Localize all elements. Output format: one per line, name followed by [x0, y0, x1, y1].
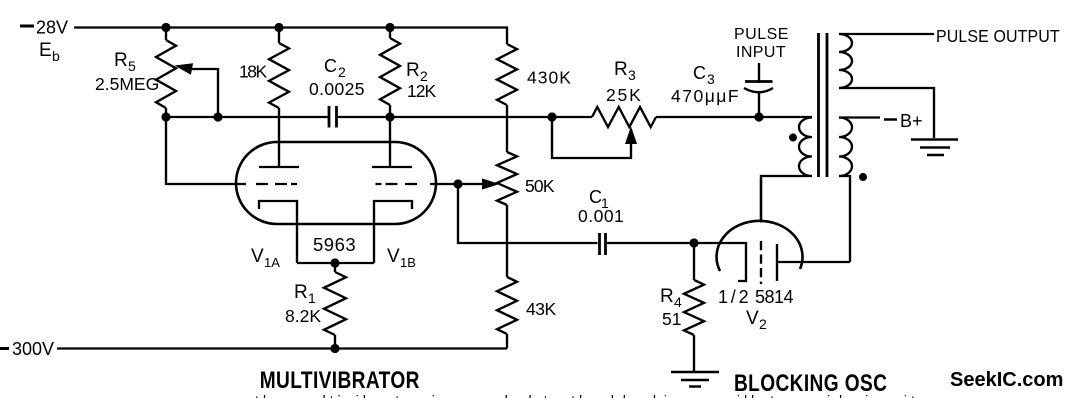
svg-text:1A: 1A	[264, 255, 280, 270]
junction dot V1B grid node	[453, 179, 462, 188]
transformer primary winding	[761, 118, 812, 220]
resistor R4 51	[660, 243, 704, 371]
svg-text:50K: 50K	[525, 176, 555, 196]
svg-text:R: R	[614, 59, 628, 80]
capacitor C3 470uuF pulse input	[671, 63, 773, 117]
svg-text:12K: 12K	[407, 81, 436, 101]
transformer secondary top winding	[839, 34, 934, 138]
resistor 18K	[239, 28, 289, 168]
svg-text:MULTIVIBRATOR: MULTIVIBRATOR	[260, 366, 420, 394]
tube V1A cathode	[259, 201, 297, 263]
svg-text:3: 3	[628, 67, 636, 83]
svg-text:2: 2	[338, 64, 346, 80]
svg-text:0.0025: 0.0025	[309, 79, 365, 99]
resistor R3 25K rheostat	[592, 59, 656, 127]
junction dot 18K top	[274, 23, 283, 32]
wire 430K to 50K	[506, 105, 508, 152]
junction dot C3 node	[754, 112, 763, 121]
resistor 43K	[497, 277, 556, 349]
wire R5 bottom bus to C2	[166, 116, 328, 118]
tube V2 envelope	[717, 221, 803, 271]
potentiometer wiper arrow 50K	[458, 178, 500, 189]
svg-text:8.2K: 8.2K	[285, 306, 321, 326]
svg-text:1B: 1B	[400, 255, 416, 270]
resistor R1 8.2K	[285, 263, 346, 349]
tube V2 plate lead	[760, 178, 762, 223]
svg-text:43K: 43K	[526, 299, 556, 319]
junction dot R2 top	[385, 23, 394, 32]
svg-text:18K: 18K	[239, 62, 267, 82]
wire R3 to transformer primary	[656, 116, 812, 118]
svg-text:R: R	[660, 286, 674, 307]
phase dot secondary	[859, 173, 867, 181]
junction dot R5 bottom	[161, 112, 170, 121]
svg-text:BLOCKING OSC: BLOCKING OSC	[734, 369, 887, 397]
svg-text:3: 3	[707, 71, 715, 87]
svg-text:0.001: 0.001	[578, 206, 624, 226]
svg-text:28V: 28V	[36, 18, 68, 38]
tube V1B plate	[372, 166, 412, 168]
resistor R5 2.5MEG	[95, 28, 176, 118]
svg-text:C: C	[324, 56, 337, 76]
svg-text:INPUT: INPUT	[736, 44, 786, 61]
wire top rail	[74, 28, 507, 45]
svg-text:5: 5	[128, 58, 136, 74]
wire V1B plate lead	[389, 117, 391, 167]
wire R5 node down to V1A grid	[166, 117, 246, 184]
svg-text:5814: 5814	[755, 287, 794, 307]
ground at secondary	[911, 140, 958, 156]
svg-text:R: R	[406, 60, 420, 81]
wire cathode join	[297, 262, 374, 264]
svg-text:E: E	[39, 40, 52, 61]
wire grid node down to C1	[458, 184, 598, 243]
resistor R2 12K	[380, 28, 436, 118]
potentiometer wiper of R5	[175, 63, 219, 117]
svg-text:25K: 25K	[606, 85, 643, 105]
tube V2 cathode bar	[777, 244, 850, 281]
svg-text:SeekIC.com: SeekIC.com	[950, 369, 1063, 391]
tube V1A plate	[259, 166, 299, 168]
ground at R4	[671, 372, 719, 387]
capacitor C2 0.0025	[309, 56, 390, 128]
wire R3 rheostat return loop	[552, 117, 631, 158]
wiper arrow R3	[625, 126, 637, 144]
tube V1 labels	[251, 234, 416, 270]
svg-text:V: V	[251, 246, 264, 267]
svg-text:R: R	[294, 282, 308, 303]
svg-text:PULSE: PULSE	[734, 26, 789, 43]
junction dot C1 R4 node	[689, 238, 698, 247]
junction dot R1 bottom	[330, 344, 339, 353]
svg-text:R: R	[114, 50, 128, 71]
svg-text:C: C	[693, 63, 706, 83]
transformer T1 core	[817, 33, 820, 177]
wire V1B grid to node	[430, 183, 458, 185]
tube V1A grid dashed	[256, 183, 297, 185]
svg-text:470μμF: 470μμF	[671, 86, 740, 106]
svg-text:V: V	[387, 246, 400, 267]
node -B+	[884, 111, 923, 131]
capacitor C1 0.001	[578, 187, 694, 255]
node PULSE INPUT	[734, 26, 789, 61]
svg-text:5963: 5963	[313, 234, 356, 255]
resistor 50K potentiometer	[497, 152, 555, 277]
svg-text:2.5MEG: 2.5MEG	[95, 74, 159, 94]
svg-text:4: 4	[674, 294, 682, 310]
svg-text:2: 2	[759, 316, 767, 332]
node -300V supply	[0, 339, 54, 359]
junction dot R5 wiper return	[213, 112, 222, 121]
wire bus R2 to R3	[390, 116, 592, 118]
junction dot R3 tap	[547, 112, 556, 121]
tube V1B cathode	[374, 201, 412, 263]
svg-text:1: 1	[308, 290, 316, 306]
tube V1B grid dashed	[376, 183, 418, 185]
tube V1 envelope 5963	[236, 142, 436, 224]
junction dot R2 bottom	[385, 112, 394, 121]
svg-text:B+: B+	[900, 111, 923, 131]
phase dot primary	[789, 134, 797, 142]
svg-text:51: 51	[662, 309, 681, 329]
tube V2 input arm	[694, 243, 746, 281]
svg-text:1/2: 1/2	[718, 287, 751, 307]
resistor 430K	[497, 44, 572, 105]
junction dot R5 top	[161, 23, 170, 32]
transformer secondary bottom winding	[839, 118, 880, 263]
junction dot cathodes	[330, 258, 339, 267]
wire -300V rail	[57, 347, 507, 349]
node -28V Eb supply	[20, 18, 68, 65]
svg-text:300V: 300V	[12, 339, 54, 359]
svg-text:PULSE OUTPUT: PULSE OUTPUT	[936, 26, 1060, 46]
svg-text:b: b	[52, 48, 60, 64]
svg-text:430K: 430K	[527, 68, 572, 88]
svg-text:V: V	[746, 308, 759, 329]
tube V2 labels	[718, 287, 794, 332]
tube V2 grid dashed	[760, 241, 762, 284]
